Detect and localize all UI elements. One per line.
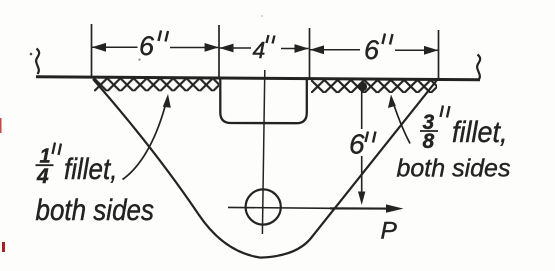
svg-text:fillet,: fillet,	[452, 116, 508, 149]
vertical 6in dimension line lower segment	[361, 156, 363, 192]
vertical 6in dimension line upper segment	[361, 90, 363, 129]
svg-text:both sides: both sides	[397, 155, 511, 183]
extension tick x=219	[218, 25, 220, 79]
speck near left squiggle	[30, 53, 33, 56]
weld hatch band left	[94, 78, 219, 91]
fraction 3/8 bar	[420, 130, 438, 132]
label fillet, left	[64, 153, 117, 186]
vertical 6in arrowhead down	[358, 192, 365, 206]
arrowhead left of 6in right	[310, 45, 324, 54]
curved leader arrow for 1/4 fillet	[123, 99, 168, 180]
red scan mark bottom left	[2, 242, 5, 252]
plate top line	[36, 77, 480, 80]
notch tab below plate	[220, 80, 306, 124]
hole circle	[246, 189, 281, 224]
svg-text:both sides: both sides	[36, 194, 155, 227]
label both sides left	[36, 194, 155, 227]
fraction 1/4 bar	[36, 164, 54, 166]
svg-text:6: 6	[139, 31, 155, 61]
dimension line 4in, segment a	[220, 47, 252, 49]
svg-text:8: 8	[423, 130, 435, 153]
faint scan speck	[138, 59, 140, 61]
arrowhead left of 4in	[219, 44, 233, 53]
label fillet, right	[452, 116, 508, 149]
svg-text:fillet,: fillet,	[64, 153, 117, 186]
svg-text:4: 4	[253, 37, 266, 63]
svg-text:4: 4	[36, 165, 49, 188]
svg-text:6: 6	[349, 129, 365, 160]
force P arrow line	[330, 207, 388, 209]
curved leader arrow for 3/8 fillet	[393, 102, 410, 144]
dimension line 6in left, segment a	[92, 46, 138, 48]
svg-text:6: 6	[364, 35, 380, 65]
dimension line 6in right, segment b	[395, 49, 438, 51]
svg-text:P: P	[381, 218, 398, 245]
red scan mark left edge	[0, 118, 2, 133]
weld hatch band right	[311, 80, 437, 93]
dimension line 6in left, segment b	[170, 47, 219, 49]
arrowhead right of 6in right	[424, 46, 438, 55]
extension tick x=438.5	[438, 30, 440, 81]
faint scan speck	[261, 15, 263, 17]
arrowhead left of 6in left	[92, 43, 106, 52]
force P arrowhead	[386, 204, 404, 212]
dimension line 4in, segment b	[281, 48, 309, 50]
triangle gusset outline	[93, 79, 437, 258]
dot anchor of vertical 6in dimension	[358, 82, 367, 91]
arrowhead of 1/4 fillet leader	[163, 94, 171, 108]
vertical centerline	[262, 70, 264, 234]
extension tick x=309.5	[309, 28, 311, 80]
arrowhead of 3/8 fillet leader	[388, 95, 396, 109]
dimension line 6in right, segment a	[310, 49, 360, 51]
arrowhead right of 4in	[295, 44, 309, 53]
arrowhead right of 6in left	[205, 43, 219, 52]
extension tick x=91.5	[91, 24, 93, 78]
crosshair horizontal line through hole	[228, 206, 330, 209]
inch mark after 1/4	[53, 143, 62, 156]
left break squiggle	[36, 49, 39, 75]
right break squiggle	[477, 55, 480, 81]
inch mark after 3/8	[441, 106, 450, 118]
